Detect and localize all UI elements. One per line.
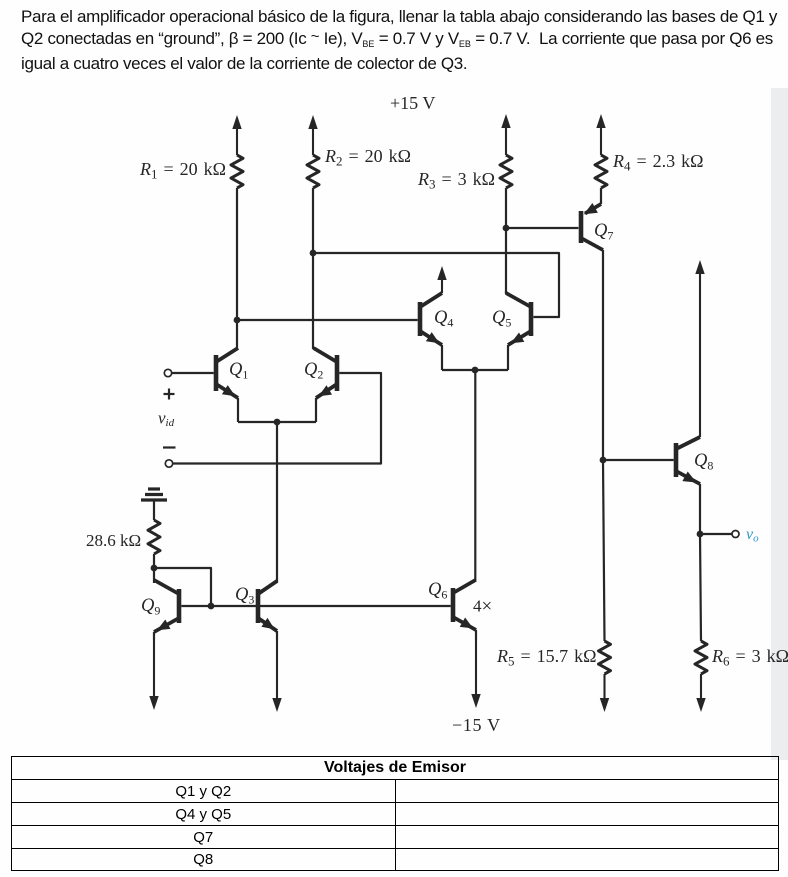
wire Q5 emitter down — [507, 345, 509, 370]
svg-text:R2 = 20 kΩ: R2 = 20 kΩ — [324, 146, 411, 169]
resistor R2 — [307, 155, 319, 188]
wire R1 to Q1 collector — [236, 188, 238, 349]
transistor Q4 — [420, 293, 442, 345]
supply arrow R2 — [308, 115, 317, 155]
transistor Q3 — [258, 581, 277, 631]
minus sign label — [163, 446, 176, 448]
ground symbol — [141, 489, 167, 520]
transistor Q5 — [506, 293, 531, 345]
node output junction — [697, 531, 704, 538]
transistor Q2 — [314, 348, 338, 398]
wire base line Q9 Q3 Q6 — [181, 605, 450, 607]
supply arrow R1 — [232, 115, 241, 155]
R2 value label — [324, 146, 411, 169]
R3 value label — [417, 169, 495, 192]
wire junction to Q7 base — [506, 227, 578, 229]
problem statement text — [21, 6, 788, 76]
svg-text:Q4: Q4 — [434, 308, 453, 330]
Q7 label — [594, 221, 613, 243]
Q2 label — [304, 360, 323, 382]
wire R3 to Q5 collector — [505, 188, 507, 293]
wire junction to Q4 base — [237, 319, 418, 321]
svg-text:4×: 4× — [473, 596, 492, 617]
svg-text:vo: vo — [746, 526, 759, 545]
input terminal minus — [165, 460, 172, 467]
transistor Q6 — [453, 580, 476, 630]
resistor R6 — [695, 641, 707, 674]
svg-text:Q6: Q6 — [428, 580, 447, 602]
wire - input to Q2 base — [172, 373, 381, 464]
Q5 label — [492, 308, 511, 330]
Q9 label — [141, 596, 160, 618]
node Q7c-Q8base junction — [600, 457, 607, 464]
R6 to negative supply arrow — [696, 674, 705, 712]
wire Q7 collector to R5 — [603, 250, 605, 641]
node Q4Q5 emitter junction — [472, 367, 479, 374]
wire Q5 collector to R3 net — [505, 291, 507, 294]
resistor R4 — [595, 155, 607, 188]
transistor Q9 — [154, 580, 179, 632]
+15 V supply label — [390, 93, 435, 113]
wire junction to Q5 base — [313, 253, 559, 317]
Q9 emitter to negative supply arrow — [149, 632, 158, 710]
node R1-Q4base junction — [234, 317, 241, 324]
R1 value label — [139, 159, 226, 182]
input terminal plus — [164, 369, 171, 376]
right edge scan band — [771, 88, 788, 760]
supply arrow R4 — [596, 114, 605, 155]
svg-text:vid: vid — [158, 409, 175, 430]
resistor R5 — [599, 641, 611, 674]
transistor Q1 — [216, 348, 238, 398]
node 28.6k junction — [151, 565, 158, 572]
plus sign label — [164, 389, 175, 400]
Q1 label — [229, 360, 248, 382]
vo label — [746, 526, 759, 545]
wire + input to Q1 base — [172, 372, 214, 374]
vid label — [158, 409, 175, 430]
wire Q4 emitter down — [441, 345, 443, 370]
Q6 label — [428, 580, 447, 602]
-15 V supply label — [452, 715, 501, 735]
wire Q4-Q5 emitters join — [442, 369, 508, 371]
R5 value label — [496, 646, 597, 669]
svg-text:R3 = 3 kΩ: R3 = 3 kΩ — [417, 169, 495, 192]
transistor Q8 — [676, 437, 700, 484]
R6 value label — [711, 646, 788, 669]
wire emitter junction to Q3 collector — [276, 422, 278, 583]
svg-text:Q5: Q5 — [492, 308, 511, 330]
wire R4 to Q7 emitter — [585, 188, 601, 214]
svg-text:Q9: Q9 — [141, 596, 160, 618]
svg-text:R5 = 15.7 kΩ: R5 = 15.7 kΩ — [496, 646, 597, 669]
4X multiplier label — [473, 596, 492, 617]
svg-text:Q2: Q2 — [304, 360, 323, 382]
svg-text:R6 = 3 kΩ: R6 = 3 kΩ — [711, 646, 788, 669]
wire Q1-Q2 emitters join — [238, 421, 316, 423]
svg-text:−15 V: −15 V — [452, 715, 501, 735]
svg-text:Q8: Q8 — [694, 451, 713, 473]
node base line junction — [208, 603, 215, 610]
svg-text:Q7: Q7 — [594, 221, 613, 243]
Q4 collector supply arrow — [437, 266, 446, 293]
svg-text:28.6 kΩ: 28.6 kΩ — [86, 531, 141, 550]
resistor R3 — [500, 155, 512, 188]
wire 28.6k junction to base line — [154, 568, 211, 606]
Q8 collector supply arrow — [695, 260, 704, 437]
answer table Voltajes de Emisor — [11, 756, 779, 871]
node Q1Q2 emitter junction — [274, 419, 281, 426]
Q8 label — [694, 451, 713, 473]
transistor Q7 — [581, 203, 603, 250]
wire Q1 emitter down — [237, 398, 239, 422]
Q4 label — [434, 308, 453, 330]
28.6k value label — [86, 531, 141, 550]
resistor R1 — [231, 155, 243, 188]
Q3 label — [235, 585, 254, 607]
svg-text:Q3: Q3 — [235, 585, 254, 607]
R4 value label — [612, 151, 704, 174]
svg-text:+15 V: +15 V — [390, 93, 435, 113]
node R3-Q7base junction — [503, 225, 510, 232]
wire Q2 emitter down — [315, 398, 317, 422]
wire emitter junction to Q6 collector — [474, 370, 476, 582]
wire to output terminal — [700, 533, 732, 535]
svg-text:R1 = 20 kΩ: R1 = 20 kΩ — [139, 159, 226, 182]
R5 to negative supply arrow — [600, 674, 609, 712]
output terminal vo — [732, 531, 739, 538]
Q3 emitter to negative supply arrow — [272, 631, 281, 712]
wire junction to Q8 base — [603, 459, 674, 461]
wire 28.6k to Q9 collector — [153, 554, 155, 583]
svg-text:R4 = 2.3 kΩ: R4 = 2.3 kΩ — [612, 151, 704, 174]
wire R2 to Q2 collector — [312, 188, 314, 349]
supply arrow R3 — [501, 114, 510, 155]
resistor 28.6k — [148, 520, 160, 554]
wire Q8 emitter to R6 — [700, 484, 701, 641]
svg-text:Q1: Q1 — [229, 360, 248, 382]
node R2-Q5base junction — [310, 250, 317, 257]
Q6 emitter to negative supply arrow — [471, 630, 480, 708]
